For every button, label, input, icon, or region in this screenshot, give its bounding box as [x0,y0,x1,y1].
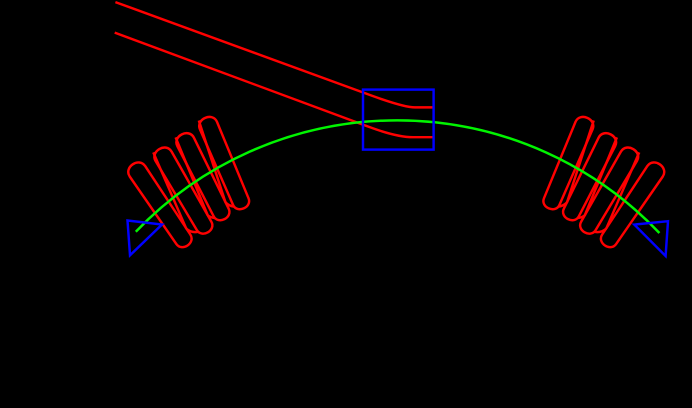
coil scallop [226,202,235,206]
coil diagonal [176,137,208,215]
coil capsule [543,117,593,209]
left wiggler coil [128,117,249,247]
coil diagonal [585,137,617,215]
coil capsule [176,133,229,220]
interaction box [363,90,434,150]
coil scallop [594,229,606,232]
coil capsule [199,117,249,209]
laser ray upper [115,2,432,107]
electron beam arc [136,120,660,233]
coil scallop [558,202,567,206]
coil diagonal [606,152,639,228]
coil scallop [186,229,198,232]
coil capsule [128,162,191,247]
coil capsule [154,148,212,234]
right wiggler coil (mirror) [543,117,664,247]
coil capsule [580,148,638,234]
coil capsule [601,162,664,247]
coil scallop [578,216,585,219]
coil diagonal [567,121,594,203]
coil diagonal [199,121,226,203]
right arrow triangle [634,221,668,256]
coil scallop [208,216,215,219]
laser ray lower [115,33,433,138]
coil capsule [563,133,616,220]
left arrow triangle [128,221,163,256]
coil diagonal [153,152,186,228]
